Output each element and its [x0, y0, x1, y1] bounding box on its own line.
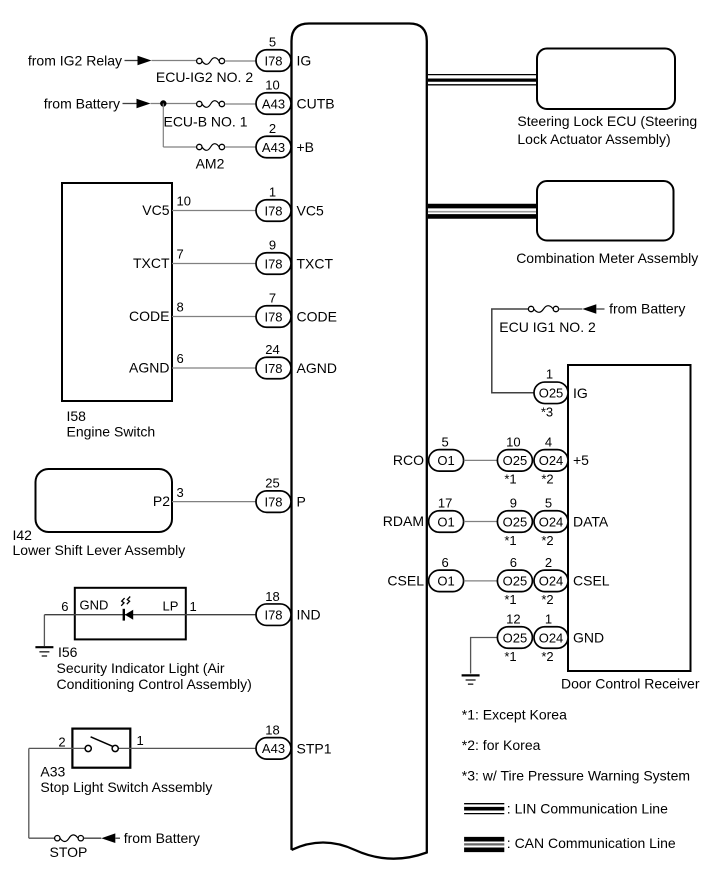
- svg-text:Lock Actuator Assembly): Lock Actuator Assembly): [517, 131, 670, 147]
- svg-text:: LIN Communication Line: : LIN Communication Line: [507, 800, 668, 816]
- svg-text:CSEL: CSEL: [387, 573, 424, 589]
- svg-text:I78: I78: [264, 256, 282, 271]
- svg-text:1: 1: [137, 733, 144, 748]
- svg-text:O25: O25: [503, 630, 528, 645]
- svg-text:IG: IG: [573, 385, 588, 401]
- svg-text:from IG2 Relay: from IG2 Relay: [28, 53, 122, 69]
- svg-text:2: 2: [58, 734, 65, 749]
- svg-text:ECU-B NO. 1: ECU-B NO. 1: [163, 114, 247, 130]
- svg-text:TXCT: TXCT: [297, 256, 334, 272]
- svg-text:O1: O1: [437, 574, 454, 589]
- svg-text:2: 2: [545, 555, 552, 570]
- svg-text:Door Control Receiver: Door Control Receiver: [561, 676, 700, 692]
- svg-text:ECU IG1 NO. 2: ECU IG1 NO. 2: [499, 319, 596, 335]
- svg-text:A43: A43: [262, 96, 285, 111]
- svg-text:10: 10: [506, 435, 520, 450]
- svg-text:*1: *1: [504, 649, 516, 664]
- svg-text:5: 5: [545, 496, 552, 511]
- svg-text:*2: *2: [541, 472, 553, 487]
- svg-text:CUTB: CUTB: [297, 96, 335, 112]
- svg-text:IND: IND: [297, 607, 321, 623]
- svg-text:5: 5: [269, 35, 276, 50]
- svg-text:1: 1: [545, 612, 552, 627]
- svg-text:I78: I78: [264, 361, 282, 376]
- svg-text:RDAM: RDAM: [383, 513, 424, 529]
- svg-text:LP: LP: [163, 599, 179, 614]
- svg-text:Steering Lock ECU (Steering: Steering Lock ECU (Steering: [517, 113, 697, 129]
- svg-text:IG: IG: [297, 53, 312, 69]
- svg-text:from Battery: from Battery: [44, 96, 120, 112]
- svg-text:STOP: STOP: [50, 844, 88, 860]
- svg-text:TXCT: TXCT: [133, 255, 170, 271]
- svg-text:+B: +B: [297, 139, 315, 155]
- svg-text:I56: I56: [58, 644, 78, 660]
- svg-text:O1: O1: [437, 514, 454, 529]
- svg-text:P2: P2: [153, 493, 170, 509]
- svg-text:18: 18: [265, 589, 279, 604]
- svg-text:from Battery: from Battery: [609, 301, 685, 317]
- svg-text:GND: GND: [80, 598, 109, 613]
- svg-text:GND: GND: [573, 629, 604, 645]
- svg-text:17: 17: [438, 496, 452, 511]
- svg-text:*1: *1: [504, 533, 516, 548]
- svg-text:8: 8: [177, 300, 184, 315]
- svg-text:Stop Light Switch Assembly: Stop Light Switch Assembly: [40, 779, 212, 795]
- svg-text:RCO: RCO: [393, 452, 424, 468]
- svg-text:O24: O24: [539, 453, 564, 468]
- svg-text:*2: *2: [541, 649, 553, 664]
- svg-text:A33: A33: [40, 763, 65, 779]
- svg-text:A43: A43: [262, 741, 285, 756]
- svg-text:I78: I78: [264, 203, 282, 218]
- svg-text:O25: O25: [539, 386, 564, 401]
- svg-text:O25: O25: [503, 574, 528, 589]
- svg-text:I78: I78: [264, 494, 282, 509]
- svg-text:I78: I78: [264, 309, 282, 324]
- svg-text:4: 4: [545, 435, 552, 450]
- svg-text:AGND: AGND: [297, 360, 337, 376]
- svg-text:Security Indicator Light (Air: Security Indicator Light (Air: [57, 660, 225, 676]
- svg-text:6: 6: [177, 351, 184, 366]
- svg-text:5: 5: [441, 435, 448, 450]
- svg-text:ECU-IG2 NO. 2: ECU-IG2 NO. 2: [156, 69, 253, 85]
- svg-text:O25: O25: [503, 453, 528, 468]
- svg-text:I78: I78: [264, 608, 282, 623]
- svg-text:*3: w/ Tire Pressure Warning S: *3: w/ Tire Pressure Warning System: [462, 768, 690, 784]
- svg-text:VC5: VC5: [297, 203, 324, 219]
- svg-text:+5: +5: [573, 452, 589, 468]
- svg-text:I42: I42: [13, 527, 33, 543]
- svg-text:10: 10: [177, 194, 191, 209]
- svg-text:VC5: VC5: [142, 202, 169, 218]
- svg-text:O1: O1: [437, 453, 454, 468]
- svg-text:Combination Meter Assembly: Combination Meter Assembly: [516, 250, 698, 266]
- svg-text:7: 7: [177, 247, 184, 262]
- svg-text:*2: *2: [541, 533, 553, 548]
- svg-text:Conditioning Control Assembly): Conditioning Control Assembly): [57, 676, 252, 692]
- svg-text:*1: *1: [504, 472, 516, 487]
- svg-text:I78: I78: [264, 53, 282, 68]
- svg-text:24: 24: [265, 342, 279, 357]
- svg-text:Engine Switch: Engine Switch: [67, 424, 156, 440]
- svg-text:O24: O24: [539, 574, 564, 589]
- svg-text:*1: *1: [504, 592, 516, 607]
- svg-text:1: 1: [269, 185, 276, 200]
- svg-text:6: 6: [61, 599, 68, 614]
- svg-text:CODE: CODE: [297, 309, 337, 325]
- svg-text:DATA: DATA: [573, 513, 609, 529]
- svg-text:18: 18: [265, 723, 279, 738]
- svg-text:*1: Except Korea: *1: Except Korea: [462, 707, 567, 723]
- svg-text:: CAN Communication Line: : CAN Communication Line: [507, 835, 676, 851]
- svg-text:O24: O24: [539, 630, 564, 645]
- svg-text:I58: I58: [67, 408, 87, 424]
- svg-text:*2: *2: [541, 592, 553, 607]
- svg-text:9: 9: [269, 238, 276, 253]
- svg-text:*2: for Korea: *2: for Korea: [462, 737, 541, 753]
- svg-text:from Battery: from Battery: [124, 830, 200, 846]
- svg-text:A43: A43: [262, 140, 285, 155]
- svg-text:12: 12: [506, 612, 520, 627]
- svg-text:Lower Shift Lever Assembly: Lower Shift Lever Assembly: [13, 542, 186, 558]
- svg-text:1: 1: [190, 599, 197, 614]
- svg-text:3: 3: [177, 485, 184, 500]
- svg-text:O24: O24: [539, 514, 564, 529]
- svg-text:P: P: [297, 494, 306, 510]
- svg-text:25: 25: [265, 476, 279, 491]
- svg-text:9: 9: [510, 496, 517, 511]
- svg-text:AM2: AM2: [196, 156, 225, 172]
- svg-text:AGND: AGND: [129, 360, 169, 376]
- svg-text:2: 2: [269, 121, 276, 136]
- svg-text:1: 1: [546, 366, 553, 381]
- svg-text:6: 6: [441, 555, 448, 570]
- svg-text:6: 6: [510, 555, 517, 570]
- svg-text:CODE: CODE: [129, 308, 169, 324]
- svg-text:7: 7: [269, 291, 276, 306]
- svg-text:*3: *3: [541, 405, 553, 420]
- svg-text:CSEL: CSEL: [573, 573, 610, 589]
- svg-text:STP1: STP1: [297, 740, 332, 756]
- svg-text:O25: O25: [503, 514, 528, 529]
- svg-text:10: 10: [265, 78, 279, 93]
